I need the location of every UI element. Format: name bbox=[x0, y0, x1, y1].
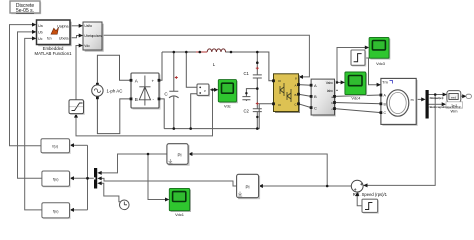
arrow into sum bottom input bbox=[355, 192, 359, 196]
svg-text:Ub: Ub bbox=[38, 31, 43, 35]
junction top bus at C bbox=[173, 51, 176, 54]
svg-text:m: m bbox=[411, 98, 414, 102]
junction right of inductor bbox=[230, 51, 233, 54]
wire inverter C to measurement C bbox=[299, 104, 312, 108]
arrow into Wm block in1 bbox=[443, 93, 447, 97]
arrow into SVPWM Vdc bbox=[79, 44, 83, 48]
capacitor C bbox=[169, 52, 179, 129]
powergui block Discrete 5e-05 s. bbox=[10, 1, 41, 14]
arrow into machine Tm bbox=[377, 83, 381, 87]
arrow into bus selector bbox=[421, 97, 425, 101]
svg-text:+: + bbox=[152, 79, 155, 84]
Wm speed block bbox=[447, 91, 461, 103]
Vdc3 scope (green) bbox=[369, 37, 390, 59]
wire measurement b to machine B bbox=[335, 103, 381, 104]
svg-text:fcn: fcn bbox=[47, 37, 52, 41]
wire Iabc stub bbox=[335, 89, 339, 91]
arrow into mux in3 bbox=[97, 181, 101, 185]
wire ref speed step to sum bbox=[357, 195, 362, 206]
arrow into mux in1 bbox=[97, 171, 101, 175]
svg-text:Uc: Uc bbox=[38, 37, 43, 41]
svg-text:f(u): f(u) bbox=[52, 145, 58, 149]
svg-text:v: v bbox=[204, 89, 206, 93]
mux block bbox=[94, 168, 97, 189]
arrow into PI1 input bbox=[188, 152, 192, 156]
wire Wm block output bbox=[461, 95, 464, 97]
svg-text:A: A bbox=[314, 83, 317, 88]
wire Ub: f(u)2 output up left side to Ub input bbox=[18, 32, 42, 178]
junction top bus at C1 chain bbox=[256, 51, 259, 54]
svg-text:B: B bbox=[294, 93, 296, 97]
arrow into Vdc4 scope bbox=[341, 80, 345, 84]
wire machine m to bus selector bbox=[416, 98, 423, 100]
junction rotor speed branch bbox=[434, 93, 437, 96]
svg-text:f(u): f(u) bbox=[53, 209, 59, 213]
display block under Wm bbox=[446, 102, 463, 108]
wire to f(u)1 input bbox=[72, 144, 87, 146]
Vdc4 scope (green) bbox=[345, 72, 367, 96]
arrow out of Wm block bbox=[462, 94, 466, 98]
IGBT glyphs bbox=[280, 83, 284, 96]
f(u)1 Fcn block bbox=[41, 139, 71, 154]
svg-text:PI: PI bbox=[178, 153, 182, 158]
inverter port nubs bbox=[272, 79, 275, 82]
svg-text:PI: PI bbox=[246, 185, 250, 190]
wire speed feedback to sum bbox=[366, 95, 435, 186]
arrow into Ua bbox=[32, 23, 36, 27]
arrow into sum right input bbox=[363, 183, 367, 187]
wire AC source top to rectifier A bbox=[97, 55, 131, 84]
wire Ua: f(u)1 output up left side to Ua input bbox=[10, 25, 42, 146]
junction mux output at f feed bbox=[86, 177, 89, 180]
svg-text:Vdc3: Vdc3 bbox=[376, 61, 385, 66]
C2 polarity mark bbox=[256, 102, 259, 105]
wire PI1 output branch to Vdc1 scope bbox=[148, 154, 167, 200]
step source Tm bbox=[351, 50, 366, 67]
arrow into PI2 input bbox=[259, 184, 263, 188]
wire step to machine Tm bbox=[365, 58, 378, 85]
wire Vabc to Vdc4 scope bbox=[335, 81, 343, 83]
arrow into Ub bbox=[32, 30, 36, 34]
arrow into display in2 bbox=[442, 102, 446, 106]
arrow into Uc bbox=[32, 36, 36, 40]
rectifier universal bridge D1 bbox=[131, 73, 161, 110]
arrow into saturation input bbox=[74, 113, 78, 117]
svg-text:Vdc1: Vdc1 bbox=[175, 212, 184, 217]
arrow into f(u)1 bbox=[70, 143, 74, 147]
wire Ubeta: EMB out2 to SVPWM in2 bbox=[70, 36, 80, 38]
diode glyph bbox=[139, 76, 150, 106]
wire Vdc measurement output to Vdc scope bbox=[209, 89, 216, 91]
svg-text:<Rotor speed (wm)>: <Rotor speed (wm)> bbox=[429, 96, 444, 100]
svg-text:C1: C1 bbox=[244, 71, 250, 76]
two-level IGBT inverter (yellow) bbox=[274, 74, 301, 113]
arrow into Vdc3 scope bbox=[365, 46, 369, 50]
wire Vdc feedback down to saturation bbox=[76, 90, 213, 136]
svg-text:Ref. Speed (rps)/1: Ref. Speed (rps)/1 bbox=[353, 192, 388, 197]
junction C1 chain upper bbox=[256, 61, 259, 64]
wire rectifier plus to DC top bus bbox=[159, 52, 162, 80]
junction bottom bus at V- bbox=[189, 127, 192, 130]
C1 polarity mark bbox=[256, 67, 259, 70]
clock block bbox=[120, 200, 130, 210]
SVPWM generator block U2 bbox=[83, 22, 104, 52]
Vdc1 scope (green) bbox=[169, 188, 191, 212]
capacitor C polarity mark bbox=[175, 76, 178, 79]
arrow into SVPWM Ubeta bbox=[79, 34, 83, 38]
junction bottom bus at C2 bbox=[256, 116, 258, 118]
arrow into inverter gate bbox=[299, 75, 303, 79]
svg-text:B: B bbox=[135, 97, 138, 102]
bus selector bbox=[426, 90, 429, 119]
PI1 controller block bbox=[167, 144, 190, 166]
svg-text:Vdc: Vdc bbox=[84, 44, 90, 48]
sum block bbox=[351, 180, 363, 192]
wire to f(u)3 input bbox=[72, 209, 87, 211]
svg-text:Ua: Ua bbox=[38, 24, 43, 28]
svg-text:Tm: Tm bbox=[382, 79, 388, 84]
svg-text:Ubeta: Ubeta bbox=[59, 37, 69, 41]
wire DC bottom bus bbox=[164, 104, 273, 129]
voltage measurement block Vdc bbox=[197, 84, 210, 97]
wire rectifier minus to DC bottom bus bbox=[159, 99, 164, 129]
junction bottom bus at C bbox=[173, 127, 176, 130]
wire voltage measurement plus from top bus bbox=[186, 52, 197, 87]
capacitor C2 stub bbox=[242, 89, 257, 101]
junction speed error branch bbox=[326, 185, 329, 188]
wire Uc: f(u)3 output up left side to Uc input bbox=[25, 38, 42, 210]
svg-text:1-ph AC: 1-ph AC bbox=[107, 88, 123, 93]
wire sum output to PI2 bbox=[261, 185, 351, 187]
three-phase VI measurement block bbox=[311, 79, 336, 116]
junction Vdc measurement output bbox=[211, 88, 214, 91]
svg-text:Wm: Wm bbox=[451, 109, 458, 114]
measurement port nubs bbox=[310, 84, 313, 87]
wire measurement a to machine A bbox=[335, 95, 381, 96]
wire bus selector out1 to Wm block bbox=[429, 94, 445, 96]
svg-text:MATLAB Function1: MATLAB Function1 bbox=[35, 51, 73, 56]
wire AC source bottom to rectifier B bbox=[97, 98, 131, 134]
wire red segment at inductor bbox=[196, 51, 207, 53]
svg-text:C2: C2 bbox=[244, 108, 250, 113]
arrow into SVPWM Ualfa bbox=[79, 24, 83, 28]
arrow into Vdc1 scope bbox=[165, 198, 169, 202]
Embedded MATLAB Function1 block U1 bbox=[37, 20, 72, 46]
f(u)3 Fcn block bbox=[42, 203, 71, 219]
wire inverter B to measurement B bbox=[299, 94, 312, 96]
MATLAB fcn icon bbox=[51, 28, 59, 35]
wire PI1 output to mux in1 bbox=[100, 154, 167, 173]
wire Vabc branch to Vdc3 scope bbox=[337, 48, 366, 83]
arrow into Vdc scope bbox=[214, 88, 218, 92]
svg-text:Iabc: Iabc bbox=[327, 89, 334, 93]
arrow into f(u)3 bbox=[70, 208, 74, 212]
wire mux output bbox=[72, 177, 94, 179]
wire voltage measurement minus to bottom bus bbox=[191, 94, 197, 129]
outport pill bbox=[466, 94, 471, 98]
saturation block bbox=[69, 100, 85, 115]
junction top bus at V+ bbox=[185, 51, 188, 54]
node AC source top terminal bbox=[96, 83, 99, 86]
node AC source bottom terminal bbox=[96, 96, 99, 99]
wire bus selector out2 bbox=[429, 103, 444, 105]
svg-text:Ualpha: Ualpha bbox=[57, 25, 68, 29]
wire Vdc sat to SVPWM in3 bbox=[76, 46, 80, 100]
svg-text:C: C bbox=[314, 105, 317, 110]
wire speed error branch to PI1 bbox=[191, 154, 327, 186]
capacitor C1 C2 chain bbox=[253, 52, 262, 129]
wire DC top bus bbox=[162, 52, 274, 81]
wire clock to mux in3 bbox=[100, 183, 120, 202]
junction left of inductor bbox=[199, 51, 202, 54]
wire Ualpha: EMB out1 to SVPWM in1 bbox=[70, 25, 80, 27]
arrow into f(u)2 bbox=[70, 176, 74, 180]
svg-text:B: B bbox=[314, 94, 317, 99]
wire PI2 output to mux in2 bbox=[100, 178, 237, 186]
step source Ref Speed bbox=[362, 199, 379, 213]
svg-text:eed: eed bbox=[451, 95, 456, 99]
AC source 1-ph AC bbox=[92, 85, 103, 96]
Vdc scope (green) bbox=[218, 80, 238, 104]
PI2 controller block bbox=[237, 174, 261, 199]
wire inverter A to measurement A bbox=[299, 84, 312, 87]
svg-text:f(u): f(u) bbox=[53, 178, 59, 182]
svg-text:Vdc4: Vdc4 bbox=[351, 96, 361, 101]
arrow into mux in2 bbox=[97, 176, 101, 180]
svg-text:5e-05 s.: 5e-05 s. bbox=[16, 8, 34, 14]
svg-text:<Electromagnetic torque Te (N*: <Electromagnetic torque Te (N*m)> bbox=[429, 105, 462, 109]
wire f(u) feed vertical bbox=[87, 145, 89, 210]
machine port nubs bbox=[380, 94, 383, 97]
PMSM machine block M1 bbox=[381, 78, 418, 126]
svg-text:pulses: pulses bbox=[92, 34, 102, 38]
svg-text:A: A bbox=[294, 83, 296, 87]
rectifier port nubs bbox=[130, 79, 133, 82]
svg-text:Vabc: Vabc bbox=[326, 81, 334, 85]
wire pulses: SVPWM output to inverter gate bbox=[102, 35, 309, 77]
svg-text:Ualfa: Ualfa bbox=[84, 24, 92, 28]
junction C1 C2 midpoint bbox=[256, 87, 259, 90]
junction PI1 output branch bbox=[147, 153, 150, 156]
wire measurement c to machine C bbox=[335, 109, 381, 113]
junction C2 stub bbox=[245, 92, 247, 94]
svg-text:Vdc: Vdc bbox=[224, 104, 231, 109]
inductor L coil bbox=[207, 49, 225, 52]
f(u)2 Fcn block bbox=[42, 171, 71, 187]
junction Vabc branch bbox=[336, 81, 339, 84]
